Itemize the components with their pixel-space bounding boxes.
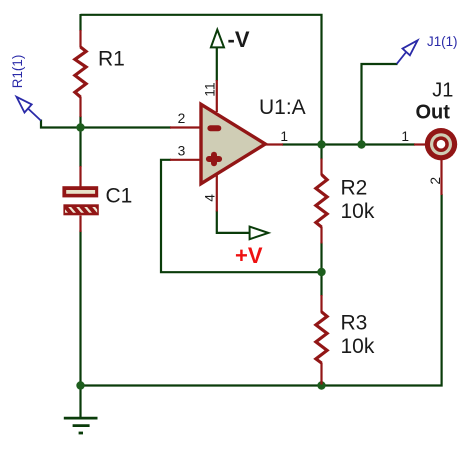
- svg-text:10k: 10k: [341, 335, 375, 358]
- svg-text:U1:A: U1:A: [259, 96, 306, 119]
- svg-text:R1: R1: [98, 48, 125, 71]
- svg-text:11: 11: [202, 82, 217, 96]
- svg-text:+V: +V: [235, 243, 263, 268]
- svg-text:1: 1: [280, 129, 288, 144]
- svg-text:2: 2: [178, 111, 186, 126]
- svg-text:C1: C1: [106, 185, 133, 208]
- svg-text:10k: 10k: [341, 200, 375, 223]
- svg-text:J1: J1: [432, 80, 453, 102]
- svg-text:Out: Out: [416, 102, 451, 124]
- svg-text:R2: R2: [341, 177, 368, 200]
- svg-text:R1(1): R1(1): [10, 55, 25, 88]
- svg-text:1: 1: [401, 129, 409, 144]
- svg-text:J1(1): J1(1): [427, 34, 458, 49]
- svg-text:R3: R3: [341, 312, 368, 335]
- svg-text:-V: -V: [228, 27, 250, 52]
- svg-text:4: 4: [203, 194, 218, 202]
- svg-text:2: 2: [428, 177, 443, 185]
- svg-text:3: 3: [178, 144, 186, 159]
